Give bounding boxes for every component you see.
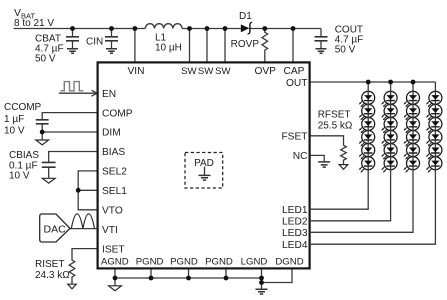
svg-text:CCOMP: CCOMP <box>4 102 42 113</box>
svg-text:CAP: CAP <box>284 66 305 77</box>
svg-text:24.3 kΩ: 24.3 kΩ <box>35 270 70 281</box>
svg-text:ISET: ISET <box>102 244 125 255</box>
svg-text:BIAS: BIAS <box>102 147 125 158</box>
svg-text:CIN: CIN <box>86 36 103 47</box>
svg-text:DGND: DGND <box>275 257 303 268</box>
svg-text:RISET: RISET <box>35 259 64 270</box>
svg-text:PGND: PGND <box>205 257 233 268</box>
svg-text:VTI: VTI <box>102 225 118 236</box>
svg-text:NC: NC <box>293 151 308 162</box>
svg-text:10 µH: 10 µH <box>155 42 182 53</box>
svg-text:LGND: LGND <box>241 257 268 268</box>
svg-text:SW: SW <box>181 66 197 77</box>
svg-text:FSET: FSET <box>281 132 307 143</box>
svg-text:DAC: DAC <box>44 224 67 236</box>
svg-text:COMP: COMP <box>102 108 133 119</box>
svg-text:SW: SW <box>215 66 231 77</box>
svg-text:AGND: AGND <box>101 257 129 268</box>
svg-text:OUT: OUT <box>286 78 308 89</box>
svg-text:LED1: LED1 <box>282 205 308 216</box>
svg-text:50 V: 50 V <box>335 44 356 55</box>
svg-text:10 V: 10 V <box>4 125 25 136</box>
svg-text:LED4: LED4 <box>282 240 308 251</box>
svg-text:25.5 kΩ: 25.5 kΩ <box>318 120 353 131</box>
svg-text:RFSET: RFSET <box>318 110 351 121</box>
svg-text:DIM: DIM <box>102 128 121 139</box>
svg-text:SW: SW <box>198 66 214 77</box>
svg-text:1 µF: 1 µF <box>4 114 24 125</box>
svg-text:ROVP: ROVP <box>231 39 260 50</box>
svg-text:VIN: VIN <box>128 66 145 77</box>
svg-text:PGND: PGND <box>136 257 164 268</box>
svg-text:VTO: VTO <box>102 206 123 217</box>
svg-text:SEL2: SEL2 <box>102 167 127 178</box>
svg-text:50 V: 50 V <box>35 54 56 65</box>
svg-text:10 V: 10 V <box>9 171 30 182</box>
svg-text:PGND: PGND <box>170 257 198 268</box>
svg-text:SEL1: SEL1 <box>102 186 127 197</box>
svg-text:LED3: LED3 <box>282 228 308 239</box>
svg-text:OVP: OVP <box>254 66 276 77</box>
svg-text:8 to 21 V: 8 to 21 V <box>14 18 54 29</box>
svg-text:LED2: LED2 <box>282 217 308 228</box>
svg-text:PAD: PAD <box>194 158 214 169</box>
svg-text:D1: D1 <box>239 11 252 22</box>
svg-text:EN: EN <box>102 89 116 100</box>
